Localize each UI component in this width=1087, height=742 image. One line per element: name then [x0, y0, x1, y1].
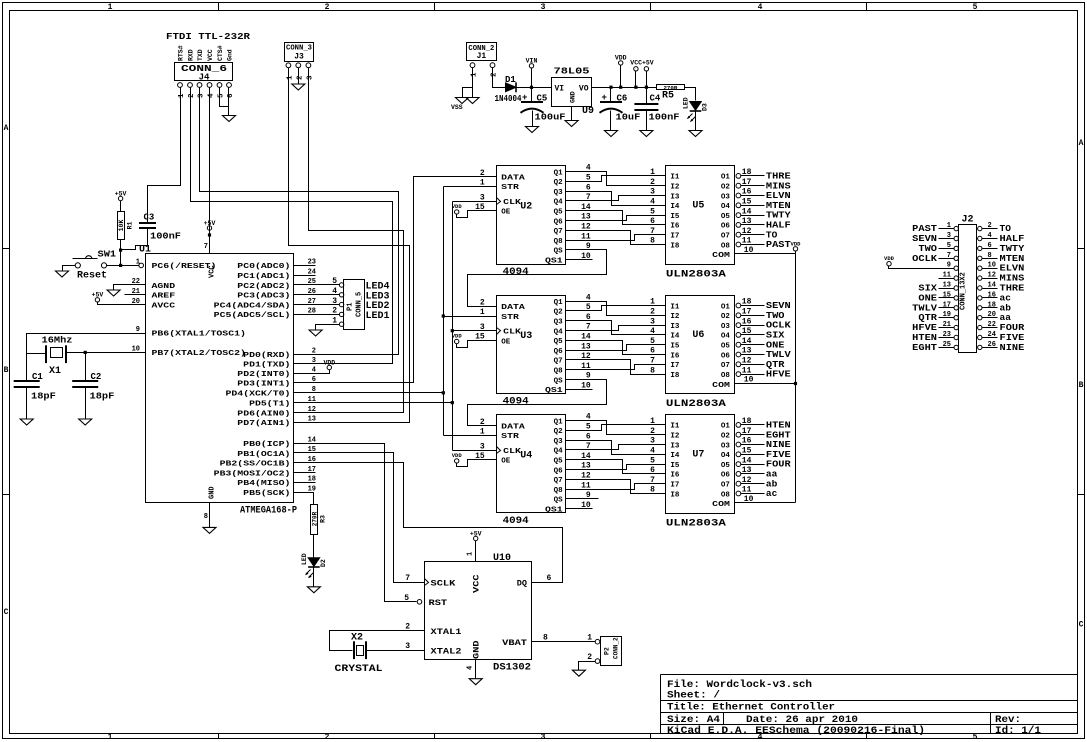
- svg-text:15: 15: [742, 447, 752, 456]
- J2 row 10 pins: [954, 316, 958, 320]
- ground AGND: [107, 290, 120, 296]
- U2 OE to VDD: [457, 211, 497, 218]
- svg-text:J2: J2: [962, 215, 974, 226]
- svg-text:10: 10: [988, 262, 996, 270]
- power VDD at COM rail: [793, 247, 797, 251]
- svg-text:VSS: VSS: [451, 104, 463, 111]
- svg-text:C5: C5: [537, 94, 548, 104]
- svg-text:SW1: SW1: [98, 250, 117, 260]
- svg-text:18pF: 18pF: [90, 392, 115, 402]
- svg-text:O3: O3: [721, 193, 731, 201]
- svg-text:I7: I7: [670, 482, 679, 490]
- svg-text:CLK: CLK: [503, 199, 521, 207]
- svg-text:Q7: Q7: [554, 477, 563, 485]
- wire U2 QS1 stub: [566, 259, 593, 261]
- svg-text:I6: I6: [670, 472, 680, 480]
- ground P1: [309, 330, 322, 336]
- power +5V at U1 pin7: [207, 226, 211, 230]
- svg-text:+5V: +5V: [92, 292, 104, 299]
- svg-text:J4: J4: [199, 73, 210, 83]
- svg-text:3: 3: [306, 75, 314, 80]
- wire PD4 to STR bus: [294, 392, 444, 394]
- svg-text:Q2: Q2: [554, 309, 564, 317]
- wire U3-U6 Q5 to I6: [566, 341, 666, 355]
- wire PC0 stub: [294, 265, 316, 267]
- svg-text:14: 14: [742, 207, 752, 216]
- wire +5V to U10 VCC: [475, 541, 477, 562]
- svg-text:U1: U1: [139, 245, 151, 256]
- svg-text:RST: RST: [429, 598, 448, 608]
- svg-text:VDD: VDD: [452, 452, 463, 459]
- svg-text:CONN_2: CONN_2: [613, 637, 620, 659]
- connector P1 CONN_5: [344, 280, 365, 330]
- svg-text:I3: I3: [670, 193, 680, 201]
- svg-text:100nF: 100nF: [150, 232, 181, 242]
- wire U3 STR: [444, 316, 497, 318]
- svg-text:2: 2: [325, 3, 330, 12]
- junction STR PD4: [442, 391, 445, 394]
- svg-text:14: 14: [742, 456, 752, 465]
- svg-text:4: 4: [988, 232, 992, 240]
- svg-text:O3: O3: [721, 442, 731, 450]
- shift register U3 4094: [497, 296, 566, 394]
- J2 row 8 pins: [954, 296, 958, 300]
- wire C6 to ground: [610, 111, 612, 131]
- wire VBAT to P2: [532, 641, 596, 643]
- svg-text:5: 5: [218, 93, 226, 98]
- svg-text:6: 6: [988, 242, 992, 250]
- svg-text:QS: QS: [554, 497, 564, 505]
- svg-text:COM: COM: [712, 382, 730, 390]
- svg-text:1: 1: [587, 634, 592, 643]
- svg-text:D1: D1: [505, 75, 516, 85]
- ground C5: [526, 127, 539, 133]
- J2 row 1 pins: [954, 226, 958, 230]
- J2 row 3 pins: [954, 246, 958, 250]
- ground C6: [605, 131, 618, 137]
- wire U2 CLK: [453, 201, 497, 203]
- svg-text:CLK: CLK: [503, 329, 521, 337]
- junction VDD: [619, 86, 622, 89]
- svg-text:18: 18: [742, 298, 752, 307]
- svg-text:C2: C2: [91, 372, 102, 382]
- wire U2 STR: [444, 186, 497, 188]
- svg-text:OE: OE: [501, 458, 511, 466]
- svg-text:3: 3: [480, 442, 485, 451]
- svg-text:Q2: Q2: [554, 428, 564, 436]
- svg-text:+5V: +5V: [204, 220, 216, 227]
- svg-text:HFVE: HFVE: [766, 369, 791, 380]
- wire U3-U6 Q2 to I1: [566, 306, 666, 311]
- J4 pin circles: [178, 83, 183, 88]
- wire U4-U7 Q3 to I4: [566, 441, 666, 455]
- wire J4 pin3 TXD to PD0: [200, 88, 399, 355]
- ground J3 pin2: [292, 84, 305, 90]
- wire J4 pin5: [220, 88, 229, 107]
- svg-text:17: 17: [742, 308, 752, 317]
- svg-text:1N4004: 1N4004: [495, 94, 522, 104]
- svg-text:XTAL2: XTAL2: [431, 646, 462, 656]
- svg-text:R5: R5: [662, 91, 674, 102]
- wire XTAL1 to X2: [330, 631, 425, 651]
- svg-text:14: 14: [742, 337, 752, 346]
- wire PC3 to P1 pin4: [294, 294, 340, 296]
- power +5V at U10: [474, 536, 478, 540]
- svg-text:B: B: [1079, 381, 1084, 390]
- svg-text:I4: I4: [670, 203, 680, 211]
- svg-text:U4: U4: [520, 451, 532, 462]
- svg-text:16: 16: [742, 317, 752, 326]
- wire U2-U5 Q2 to I1: [566, 176, 666, 182]
- power VSS flag: [456, 98, 469, 104]
- junction VCC: [634, 86, 637, 89]
- J2 row 6 pins: [954, 276, 958, 280]
- wire XTAL2 line to C2: [85, 353, 87, 382]
- svg-text:U2: U2: [520, 202, 532, 213]
- svg-text:18: 18: [988, 301, 996, 309]
- svg-text:PC6(/RESET): PC6(/RESET): [152, 263, 217, 271]
- svg-text:I7: I7: [670, 233, 679, 241]
- svg-text:QS1: QS1: [545, 258, 563, 266]
- J2 row 7 pins: [954, 286, 958, 290]
- svg-text:PB5(SCK): PB5(SCK): [243, 490, 290, 498]
- svg-text:KiCad E.D.A. EESchema (200902: KiCad E.D.A. EESchema (20090216-Final): [667, 725, 925, 737]
- power VIN: [529, 64, 533, 68]
- svg-text:Q4: Q4: [554, 448, 564, 456]
- svg-text:1: 1: [467, 552, 475, 556]
- svg-text:Q5: Q5: [554, 338, 564, 346]
- U4 OE to VDD: [457, 460, 497, 467]
- svg-text:OE: OE: [501, 209, 511, 217]
- wire D2 to ground: [313, 567, 315, 587]
- svg-text:Q6: Q6: [554, 218, 564, 226]
- svg-text:U6: U6: [692, 330, 704, 341]
- RTC U10 DS1302: [425, 562, 532, 660]
- svg-text:O8: O8: [721, 242, 731, 250]
- wire VIN down: [531, 69, 533, 102]
- svg-text:Q3: Q3: [554, 319, 564, 327]
- svg-text:RTS#: RTS#: [178, 45, 185, 61]
- wire D1 to U9 VI: [517, 87, 552, 89]
- svg-text:15: 15: [742, 327, 752, 336]
- wire U10 GND to ground: [475, 660, 477, 679]
- svg-text:Q4: Q4: [554, 199, 564, 207]
- wire C4 to ground: [646, 111, 648, 131]
- svg-text:VDD: VDD: [452, 333, 463, 340]
- wire rail to C4: [646, 88, 648, 104]
- svg-text:J1: J1: [477, 52, 487, 61]
- wire U3-U6 Q6 to I5: [566, 345, 666, 351]
- svg-text:A: A: [4, 124, 9, 133]
- J2 row 5 pins: [954, 266, 958, 270]
- svg-text:16: 16: [742, 437, 752, 446]
- svg-text:O1: O1: [721, 303, 731, 311]
- svg-text:6: 6: [547, 574, 552, 583]
- svg-text:4094: 4094: [503, 267, 529, 278]
- svg-text:3: 3: [541, 3, 546, 12]
- svg-text:PD6(AIN0): PD6(AIN0): [237, 410, 290, 418]
- svg-text:17: 17: [742, 178, 752, 187]
- wire U3-U6 Q7 to I8: [566, 360, 666, 375]
- svg-text:Q2: Q2: [554, 179, 564, 187]
- U1 pin1 bubble: [139, 263, 144, 268]
- ground C1: [20, 419, 33, 425]
- svg-text:STR: STR: [501, 314, 519, 322]
- U7 output bubbles and stubs: [736, 423, 741, 428]
- svg-text:CRYSTAL: CRYSTAL: [335, 664, 383, 675]
- svg-text:5: 5: [650, 456, 655, 465]
- resistor R1: [118, 212, 125, 240]
- wire U2-U5 Q5 to I6: [566, 211, 666, 225]
- svg-text:I5: I5: [670, 462, 680, 470]
- svg-text:+: +: [602, 93, 607, 103]
- junction COM U6: [794, 382, 797, 385]
- svg-text:1: 1: [480, 308, 485, 317]
- svg-text:PD1(TXD): PD1(TXD): [243, 362, 290, 370]
- svg-text:Q1: Q1: [554, 418, 564, 426]
- svg-text:PD4(XCK/T0): PD4(XCK/T0): [226, 391, 291, 399]
- ground SW1: [56, 271, 69, 277]
- svg-text:3: 3: [312, 357, 316, 365]
- wire J4 pin6: [228, 88, 230, 116]
- wire U2-U5 Q4 to I3: [566, 196, 666, 201]
- J3 pin circles: [286, 63, 291, 68]
- svg-text:2: 2: [988, 222, 992, 230]
- svg-text:9: 9: [947, 262, 951, 270]
- svg-text:C6: C6: [617, 94, 628, 104]
- svg-text:VCC: VCC: [209, 265, 217, 278]
- svg-text:VCC: VCC: [472, 574, 482, 593]
- wire U3-U6 Q3 to I4: [566, 321, 666, 335]
- svg-text:STR: STR: [501, 433, 519, 441]
- svg-text:100uF: 100uF: [535, 113, 566, 123]
- junction R1 C3: [119, 249, 122, 252]
- J1 pin circles: [470, 63, 475, 68]
- svg-text:5: 5: [332, 277, 337, 286]
- svg-text:23: 23: [943, 331, 951, 339]
- svg-text:O2: O2: [721, 313, 731, 321]
- wire U3-U6 Q1 to I2: [566, 302, 666, 316]
- wire J4 pin4 VCC down to +5V and U1 pin7: [209, 88, 211, 254]
- svg-text:I6: I6: [670, 223, 680, 231]
- svg-text:O8: O8: [721, 372, 731, 380]
- svg-text:I1: I1: [670, 303, 680, 311]
- wire U4 CLK: [453, 450, 497, 452]
- svg-text:U7: U7: [692, 450, 704, 461]
- svg-text:C3: C3: [144, 213, 155, 223]
- svg-text:PC3(ADC3): PC3(ADC3): [237, 293, 290, 301]
- wire U4-U7 Q5 to I6: [566, 460, 666, 474]
- svg-text:VDD: VDD: [884, 255, 895, 262]
- svg-text:I5: I5: [670, 343, 680, 351]
- svg-text:15: 15: [742, 198, 752, 207]
- svg-text:LED: LED: [683, 97, 690, 109]
- svg-text:16: 16: [742, 188, 752, 197]
- svg-text:SCLK: SCLK: [431, 578, 457, 588]
- svg-text:O2: O2: [721, 184, 731, 192]
- svg-text:PB3(MOSI/OC2): PB3(MOSI/OC2): [214, 470, 291, 478]
- ground U9: [565, 121, 578, 127]
- svg-text:12: 12: [742, 357, 752, 366]
- svg-text:ac: ac: [766, 488, 778, 499]
- svg-text:I2: I2: [670, 313, 680, 321]
- wire PC2 to P1 pin5: [294, 284, 340, 286]
- J2 row 2 pins: [954, 236, 958, 240]
- wire D3 to ground: [695, 111, 697, 131]
- U6 output bubbles and stubs: [736, 303, 741, 308]
- title block: [661, 675, 1078, 734]
- junction STR U3: [442, 314, 445, 317]
- svg-text:12: 12: [742, 227, 752, 236]
- wire U4 QS1 stub: [566, 508, 593, 510]
- capacitor C5: [521, 101, 543, 103]
- svg-text:8: 8: [204, 513, 208, 521]
- svg-text:CONN_5: CONN_5: [356, 292, 364, 317]
- svg-text:I4: I4: [670, 333, 680, 341]
- svg-text:VCC: VCC: [207, 49, 214, 61]
- wire U3 QS1 stub: [566, 389, 593, 391]
- svg-text:I8: I8: [670, 242, 680, 250]
- svg-text:O8: O8: [721, 491, 731, 499]
- svg-text:ULN2803A: ULN2803A: [666, 399, 726, 410]
- svg-text:4094: 4094: [503, 516, 529, 527]
- svg-text:DATA: DATA: [501, 174, 525, 182]
- svg-text:18: 18: [742, 168, 752, 177]
- svg-text:O6: O6: [721, 472, 731, 480]
- svg-text:Gnd: Gnd: [227, 49, 234, 61]
- U3 OE to VDD: [457, 341, 497, 348]
- svg-text:C4: C4: [650, 94, 661, 104]
- svg-text:20: 20: [988, 311, 996, 319]
- svg-text:U3: U3: [520, 331, 532, 342]
- ground U10: [469, 679, 482, 685]
- connector J2 CONN_13X2: [959, 225, 977, 353]
- svg-text:O7: O7: [721, 482, 730, 490]
- svg-text:I1: I1: [670, 423, 680, 431]
- svg-text:PB6(XTAL1/TOSC1): PB6(XTAL1/TOSC1): [152, 331, 246, 339]
- svg-text:D2: D2: [320, 559, 327, 567]
- wire AREF stub: [125, 294, 146, 296]
- wire U4-U7 Q4 to I3: [566, 445, 666, 450]
- connector J1 CONN_2: [467, 43, 497, 61]
- svg-text:2: 2: [587, 653, 592, 662]
- svg-text:I8: I8: [670, 491, 680, 499]
- svg-text:O1: O1: [721, 174, 731, 182]
- svg-text:6: 6: [586, 183, 591, 192]
- driver U6 ULN2803A: [666, 296, 735, 394]
- svg-text:+5V: +5V: [470, 530, 482, 537]
- wire U4-U7 Q6 to I5: [566, 465, 666, 470]
- wire J1 pin1 to ground: [472, 68, 474, 98]
- svg-text:ATMEGA168-P: ATMEGA168-P: [240, 506, 297, 517]
- svg-text:16: 16: [988, 291, 996, 299]
- U10 RST bubble: [417, 600, 422, 605]
- svg-text:O6: O6: [721, 223, 731, 231]
- wire R3 to LED D2: [313, 535, 315, 558]
- svg-text:18: 18: [742, 417, 752, 426]
- svg-text:PC4(ADC4/SDA): PC4(ADC4/SDA): [214, 302, 291, 310]
- wire VDD down: [620, 66, 622, 88]
- svg-text:OE: OE: [501, 338, 511, 346]
- wire C1 to ground: [26, 388, 28, 419]
- wire U3-U6 Q4 to I3: [566, 326, 666, 331]
- wire J1 pin2 to D1: [493, 68, 506, 88]
- resistor R5: [657, 85, 685, 90]
- svg-text:1: 1: [471, 72, 479, 77]
- resistor R3: [311, 505, 318, 535]
- svg-text:25: 25: [943, 341, 951, 349]
- connector J3 CONN_3: [285, 43, 314, 62]
- svg-text:9: 9: [136, 326, 140, 334]
- wire J4 pin2 RXD to PD1: [191, 88, 393, 364]
- wire PB0 to DS1302 RST: [294, 444, 417, 602]
- svg-text:Q5: Q5: [554, 209, 564, 217]
- driver U7 ULN2803A: [666, 415, 735, 514]
- svg-text:21: 21: [943, 321, 951, 329]
- svg-text:16Mhz: 16Mhz: [42, 336, 73, 346]
- svg-text:2: 2: [312, 347, 316, 355]
- svg-text:26: 26: [988, 341, 996, 349]
- svg-text:O7: O7: [721, 362, 730, 370]
- svg-text:PB2(SS/OC1B): PB2(SS/OC1B): [220, 461, 291, 469]
- svg-text:R3: R3: [320, 515, 327, 523]
- svg-text:I2: I2: [670, 433, 680, 441]
- wire U2-U5 Q8 to I7: [566, 235, 666, 241]
- svg-text:12: 12: [988, 272, 996, 280]
- junction CLK U3: [451, 329, 454, 332]
- wire SW1 to U1 reset pin: [107, 265, 139, 267]
- wire U4-U7 Q7 to I8: [566, 480, 666, 494]
- svg-text:4094: 4094: [503, 397, 529, 408]
- svg-text:VDD: VDD: [791, 241, 802, 248]
- power VDD rail: [619, 61, 623, 65]
- svg-text:PC5(ADC5/SCL): PC5(ADC5/SCL): [214, 312, 291, 320]
- ground D3: [689, 131, 702, 137]
- LED D2: [308, 558, 320, 567]
- wire U4-U7 Q1 to I2: [566, 421, 666, 435]
- wire +5V down: [646, 71, 648, 88]
- junction C4: [645, 86, 648, 89]
- crystal X1: [45, 345, 47, 363]
- wire U2-U5 Q3 to I4: [566, 192, 666, 206]
- svg-text:I2: I2: [670, 184, 680, 192]
- svg-text:O5: O5: [721, 462, 731, 470]
- svg-text:3: 3: [198, 93, 206, 98]
- svg-text:24: 24: [988, 331, 996, 339]
- svg-text:1: 1: [136, 259, 140, 267]
- svg-text:11: 11: [943, 272, 951, 280]
- svg-text:VBAT: VBAT: [502, 638, 527, 648]
- svg-text:13: 13: [742, 217, 752, 226]
- junction C2: [84, 351, 87, 354]
- svg-text:NINE: NINE: [1000, 342, 1025, 353]
- svg-text:C: C: [4, 608, 9, 617]
- svg-text:1: 1: [108, 733, 113, 742]
- wire PB4 stub: [294, 482, 316, 484]
- svg-text:5: 5: [947, 242, 951, 250]
- svg-text:FTDI TTL-232R: FTDI TTL-232R: [166, 31, 250, 42]
- J2 row 11 pins: [954, 325, 958, 329]
- svg-text:3: 3: [332, 297, 337, 306]
- svg-text:PC0(ADC0): PC0(ADC0): [237, 263, 290, 271]
- svg-text:QS1: QS1: [545, 387, 563, 395]
- svg-text:VDD: VDD: [615, 55, 627, 62]
- U5 output bubbles and stubs: [736, 174, 741, 179]
- J2 row 13 pins: [954, 345, 958, 349]
- svg-text:D3: D3: [702, 103, 709, 111]
- svg-text:PAST: PAST: [766, 239, 791, 250]
- svg-text:QS: QS: [554, 248, 564, 256]
